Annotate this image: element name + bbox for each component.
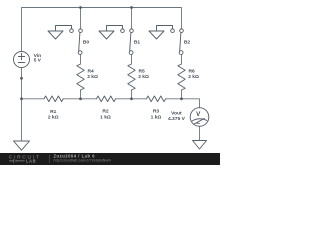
svg-text:2 kΩ: 2 kΩ [87,74,98,80]
svg-text:htlp//circuitlab.com/c/7sbbjbd: htlp//circuitlab.com/c/7sbbjbdfkwh [54,159,111,163]
svg-text:2 kΩ: 2 kΩ [188,74,199,80]
svg-text:4.375 V: 4.375 V [168,116,186,122]
svg-text:R2: R2 [102,109,109,115]
svg-text:1 kΩ: 1 kΩ [100,114,111,120]
svg-text:B2: B2 [184,39,191,45]
svg-text:Zuzu2004 / Lab 6: Zuzu2004 / Lab 6 [54,153,96,158]
svg-text:5 V: 5 V [34,58,42,64]
svg-text:R4: R4 [88,69,95,75]
svg-text:R3: R3 [153,109,160,115]
svg-text:R1: R1 [50,109,57,115]
svg-text:B1: B1 [134,39,141,45]
svg-text:R6: R6 [189,69,196,75]
svg-text:2 kΩ: 2 kΩ [138,74,149,80]
svg-text:Vout: Vout [171,111,182,117]
svg-text:2 kΩ: 2 kΩ [48,115,59,121]
svg-text:R5: R5 [139,69,146,75]
svg-text:1 kΩ: 1 kΩ [151,114,162,120]
svg-text:LAB: LAB [26,158,36,163]
svg-text:B0: B0 [83,39,90,45]
